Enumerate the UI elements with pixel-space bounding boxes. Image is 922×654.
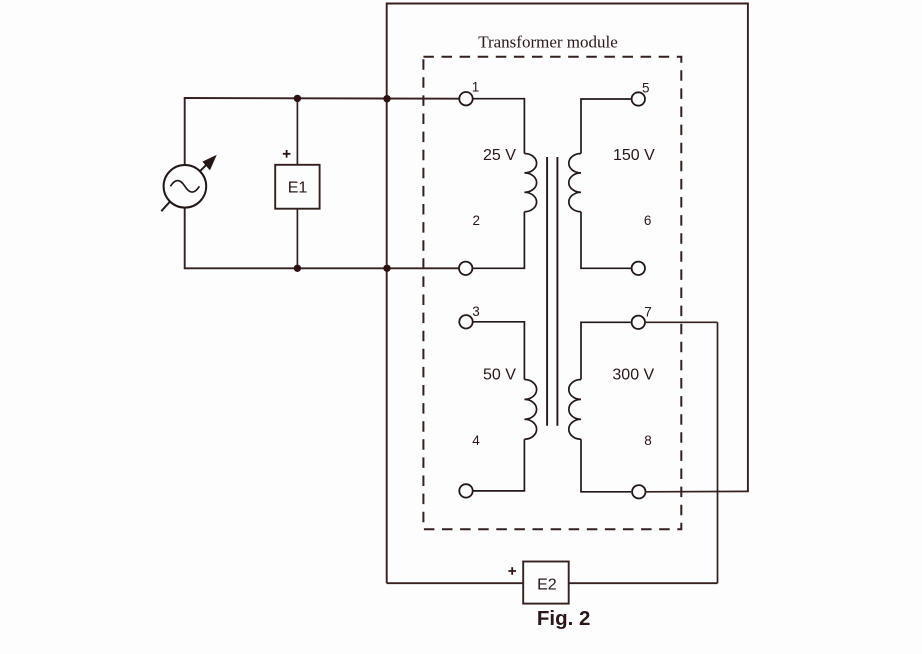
node: junction dot top E1 [294,95,301,102]
transformer core T1/T2 shared [547,157,557,426]
node: junction dot bottom border [383,265,390,272]
wire: module outer border right vertical [747,4,749,492]
wire: terminal 8 to outer border right [646,490,749,492]
svg-text:50 V: 50 V [483,367,516,384]
winding: lower primary 50 V coil [524,380,536,440]
svg-text:E1: E1 [288,180,308,197]
svg-text:8: 8 [644,433,652,448]
terminal 7 [632,316,645,329]
voltmeter E2 box [523,562,569,604]
terminal 3 [459,315,472,328]
voltmeter E1 box [275,165,319,209]
wire: terminal 1 to primary coil top [473,99,524,154]
winding: primary 25 V coil [524,154,536,212]
transformer module dashed boundary box [423,57,681,530]
winding: secondary 150 V coil [569,154,581,212]
wire: top wire from source to terminal 1 [184,97,459,100]
wire: terminal 3 to lower primary coil top [473,322,524,380]
wire: secondary coil bottom to terminal 6 [581,212,631,269]
terminal 1 [459,92,472,105]
terminal 4 [459,484,472,497]
svg-text:E2: E2 [537,576,557,593]
wire: right return vertical down to E2 [717,322,719,583]
svg-text:6: 6 [644,213,652,228]
node: junction dot bottom E1 [294,265,301,272]
svg-text:1: 1 [472,80,480,95]
terminal 5 [632,92,645,105]
svg-text:Fig. 2: Fig. 2 [537,607,591,630]
svg-text:4: 4 [472,433,480,448]
terminal 8 [632,485,645,498]
node: junction dot top border [383,95,390,102]
svg-text:2: 2 [473,213,481,228]
terminal 2 [459,262,472,275]
wire: primary coil bottom to terminal 2 [473,212,524,269]
svg-text:5: 5 [642,81,650,96]
polarity + for E1 [283,150,291,158]
wire: terminal 7 to right return vertical [646,321,718,323]
svg-text:300 V: 300 V [612,367,654,384]
svg-text:25 V: 25 V [483,147,516,164]
wire: lower primary coil bottom to terminal 4 [473,439,524,491]
wire: lower secondary coil bottom to terminal 8 [581,439,631,492]
svg-text:Transformer module: Transformer module [478,33,618,52]
wire: bottom wire from source to terminal 2 [184,267,459,269]
wire: bottom wire right of E2 [569,582,718,584]
wire: terminal 7 to lower secondary coil top [581,322,631,379]
svg-text:150 V: 150 V [613,147,655,164]
wire: bottom wire left of E2 [387,582,524,584]
wire: module outer border top horizontal [386,3,749,5]
terminal 6 [632,262,645,275]
wire: module outer border left vertical [386,4,388,584]
wire: terminal 5 to secondary coil top [581,99,631,154]
polarity + for E2 [508,567,516,575]
wire: E1 top lead [296,98,298,165]
AC source G1 [161,156,216,211]
wire: E1 bottom lead [296,209,298,269]
svg-text:7: 7 [644,305,652,320]
wire: source left vertical [184,98,186,269]
svg-text:3: 3 [472,304,480,319]
winding: lower secondary 300 V coil [569,380,581,440]
